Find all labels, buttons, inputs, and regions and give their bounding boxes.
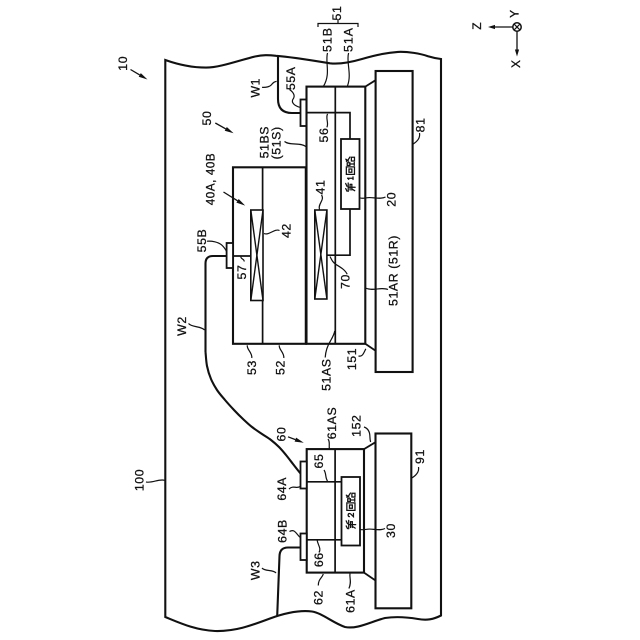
label 51AR (51R)	[366, 235, 401, 306]
svg-text:60: 60	[275, 427, 289, 442]
label 151	[345, 348, 366, 370]
label W3	[249, 560, 277, 580]
label 61AS	[325, 407, 339, 449]
label 61A	[344, 574, 358, 613]
block 51B/51A	[307, 87, 366, 344]
label 52	[274, 345, 288, 375]
svg-text:81: 81	[413, 117, 427, 132]
label 55B	[195, 229, 227, 253]
svg-text:40A, 40B: 40A, 40B	[205, 153, 218, 206]
svg-text:56: 56	[317, 128, 331, 143]
terminal 55A	[301, 100, 307, 127]
label 20	[360, 192, 398, 207]
terminal 55B	[227, 243, 233, 268]
slant bottom joining 91	[364, 573, 376, 581]
label 64B	[276, 519, 301, 543]
svg-text:51AR (51R): 51AR (51R)	[387, 235, 401, 306]
svg-text:51A: 51A	[342, 27, 356, 52]
svg-text:100: 100	[133, 469, 147, 491]
svg-text:62: 62	[312, 590, 326, 605]
label 100	[133, 469, 165, 491]
resonator element 41	[315, 210, 327, 299]
divider 62/61A	[334, 449, 336, 572]
label 10	[116, 56, 148, 80]
coordinate axes symbol	[470, 9, 523, 68]
label 57	[235, 257, 249, 280]
label 53	[245, 345, 259, 375]
svg-text:(51S): (51S)	[270, 126, 284, 159]
label 152	[350, 415, 371, 442]
label 81	[413, 117, 428, 144]
label 30	[360, 523, 398, 538]
label 64A	[275, 477, 300, 501]
svg-text:152: 152	[350, 415, 364, 437]
svg-text:51: 51	[330, 6, 344, 21]
divider 53/52	[262, 167, 264, 343]
svg-text:151: 151	[345, 348, 359, 370]
svg-text:41: 41	[314, 180, 328, 195]
svg-text:53: 53	[245, 360, 259, 375]
svg-text:42: 42	[280, 223, 294, 238]
terminal 64A	[301, 462, 307, 489]
svg-text:64B: 64B	[276, 519, 290, 543]
label 42	[264, 223, 294, 238]
substrate 100 outline	[165, 52, 441, 631]
wiring line 56	[307, 113, 351, 139]
svg-text:W3: W3	[249, 560, 263, 580]
wiring line 70	[327, 209, 350, 255]
label 65	[312, 454, 328, 481]
label 66	[312, 541, 326, 568]
label 41	[314, 180, 328, 210]
svg-text:64A: 64A	[275, 477, 289, 501]
sub-line 65 boundary	[307, 481, 342, 483]
electrode line 57	[233, 255, 251, 257]
board 91	[376, 434, 412, 609]
slant top joining 81	[365, 80, 375, 86]
wire W2	[206, 256, 301, 474]
label 91	[411, 449, 427, 478]
label 55A	[284, 66, 300, 107]
svg-text:20: 20	[385, 192, 399, 207]
svg-text:X: X	[509, 59, 523, 68]
label 51AS	[320, 331, 335, 391]
label 62	[312, 574, 326, 605]
svg-text:W2: W2	[175, 316, 189, 336]
svg-text:70: 70	[339, 274, 353, 289]
label 56	[317, 114, 331, 142]
board 81	[376, 71, 413, 372]
first circuit box (第1回路) 20	[341, 139, 360, 209]
svg-text:W1: W1	[249, 78, 263, 98]
svg-text:Y: Y	[507, 9, 521, 18]
resonator element 42	[251, 210, 263, 301]
label 70	[330, 257, 353, 289]
svg-text:Z: Z	[470, 22, 484, 30]
svg-text:91: 91	[413, 449, 427, 464]
slant top joining 91 (152)	[364, 442, 375, 449]
svg-text:51AS: 51AS	[320, 358, 334, 390]
label 40A, 40B	[205, 153, 246, 206]
svg-text:65: 65	[312, 454, 326, 469]
divider 51B/51A	[334, 87, 336, 344]
label W2	[175, 316, 205, 336]
slant bottom joining 81 (151)	[365, 344, 375, 351]
svg-text:55B: 55B	[195, 229, 209, 253]
labels 51B 51A with bracket 51	[318, 6, 358, 87]
svg-text:66: 66	[312, 552, 326, 567]
svg-text:57: 57	[235, 265, 249, 280]
block 62/61A	[307, 449, 364, 572]
block 40A/40B body (layers 53/52)	[233, 167, 306, 343]
sub-line 66 boundary	[307, 539, 342, 541]
label W1	[249, 78, 277, 98]
svg-text:10: 10	[116, 56, 130, 71]
svg-text:51B: 51B	[321, 27, 335, 52]
svg-text:52: 52	[274, 360, 288, 375]
svg-text:55A: 55A	[284, 66, 298, 90]
wire W1	[278, 56, 301, 113]
second circuit box (第2回路) 30	[342, 477, 361, 546]
svg-text:61AS: 61AS	[325, 407, 339, 439]
svg-text:50: 50	[200, 111, 214, 126]
svg-text:30: 30	[384, 523, 398, 538]
label 50	[200, 111, 234, 134]
label 60	[275, 427, 304, 443]
label 51BS (51S)	[258, 126, 306, 159]
svg-text:61A: 61A	[344, 589, 358, 613]
wire W3	[277, 548, 300, 617]
terminal 64B	[301, 534, 307, 561]
